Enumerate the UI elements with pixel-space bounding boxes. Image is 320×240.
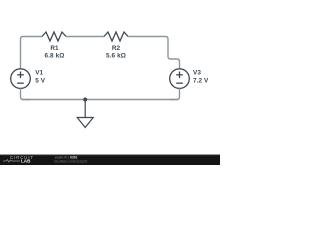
watermark CircuitLab logo — [3, 155, 34, 164]
ground — [77, 100, 93, 128]
node junction dot at ground tap — [83, 98, 87, 102]
wire: V1 bottom lead down to bottom rail — [21, 88, 31, 99]
svg-text:6.8 kΩ: 6.8 kΩ — [45, 53, 65, 60]
wire: V1 top lead up to top rail corner — [21, 37, 43, 69]
svg-text:V3: V3 — [193, 69, 201, 76]
resistor R1 — [42, 32, 66, 60]
voltage source V1 — [11, 69, 46, 89]
resistor R2 — [104, 32, 128, 60]
svg-text:LAB: LAB — [21, 159, 31, 164]
svg-text:circuitlab.com/czs3qr23: circuitlab.com/czs3qr23 — [54, 159, 88, 163]
svg-text:7.2 V: 7.2 V — [193, 77, 209, 84]
svg-text:R1: R1 — [50, 45, 59, 52]
svg-text:R2: R2 — [112, 45, 121, 52]
wire: top rail between R1 and R2 — [66, 36, 104, 38]
voltage source V3 — [170, 69, 209, 89]
svg-text:V1: V1 — [35, 69, 43, 76]
wire: V3 bottom lead down to bottom rail — [170, 88, 180, 99]
wire: bottom rail — [22, 99, 178, 101]
svg-text:5.6 kΩ: 5.6 kΩ — [106, 53, 126, 60]
watermark footer bar — [0, 154, 220, 165]
svg-text:5 V: 5 V — [35, 77, 46, 84]
wire: top rail from R2 to right corner, jog down to V3 — [128, 37, 180, 69]
